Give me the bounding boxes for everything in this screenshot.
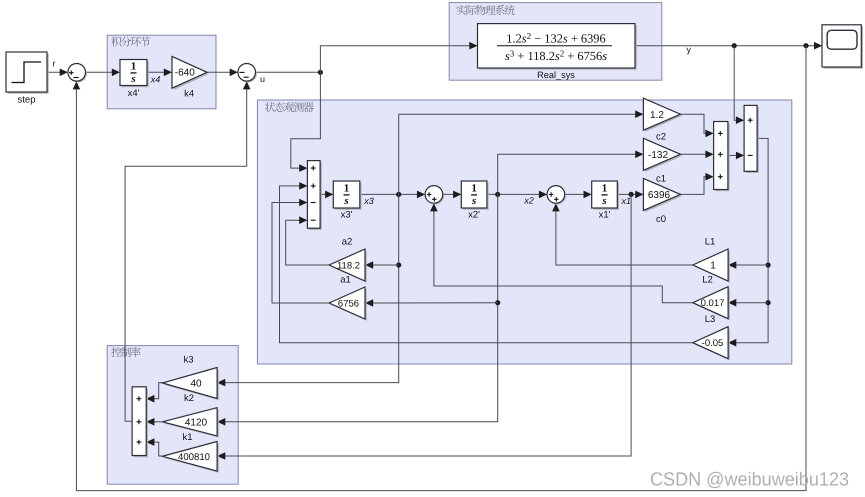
svg-text:u: u xyxy=(260,74,265,84)
wire x3 junction to a2 input xyxy=(367,264,399,266)
svg-text:6756: 6756 xyxy=(338,299,359,310)
svg-text:s: s xyxy=(130,73,135,85)
gain a1 (6756) xyxy=(331,289,367,321)
junction x2 node xyxy=(495,192,500,197)
gain a2 (118.2) xyxy=(331,251,367,283)
gain L2 (0.017) xyxy=(695,288,730,320)
step source step xyxy=(8,54,49,94)
gain c1 (-132) xyxy=(645,140,682,172)
sum S3 xyxy=(426,187,444,205)
sum S2 xyxy=(239,65,257,83)
observer sum block (+,+,-,-) xyxy=(309,162,322,230)
wire error to L1 input xyxy=(730,264,769,266)
wire x2 down to gain k2 and a1 xyxy=(219,194,498,421)
svg-text:Real_sys: Real_sys xyxy=(537,70,575,80)
wire c2 output to sum5 input 1 xyxy=(680,114,712,133)
wire observer sum to integrator x3' xyxy=(320,193,332,195)
junction x1 node xyxy=(629,192,634,197)
wire c1 output to sum5 input 2 xyxy=(680,153,712,155)
svg-text:CSDN @weibuweibu123: CSDN @weibuweibu123 xyxy=(650,470,849,491)
svg-text:L2: L2 xyxy=(702,275,713,286)
wire y feedback down-around to sum1 minus input xyxy=(76,46,806,491)
svg-text:y: y xyxy=(687,44,692,54)
gain k2 (4120) xyxy=(164,409,219,437)
wire x2 up to gain c1(-132) xyxy=(498,154,642,194)
svg-text:x1: x1 xyxy=(621,196,632,206)
junction y node B xyxy=(803,43,808,48)
svg-text:x4': x4' xyxy=(128,88,140,99)
svg-text:k1: k1 xyxy=(182,432,192,443)
svg-text:-640: -640 xyxy=(175,68,195,79)
region title 实际物理系统 xyxy=(456,5,514,15)
svg-text:x3': x3' xyxy=(341,209,353,220)
svg-text:x2: x2 xyxy=(523,196,534,206)
svg-text:1: 1 xyxy=(131,61,137,73)
svg-text:118.2: 118.2 xyxy=(337,261,360,272)
wire u node down into observer sum input 1 xyxy=(291,72,321,168)
region box 积分环节 (integral element) xyxy=(107,35,216,109)
svg-text:400810: 400810 xyxy=(178,452,210,463)
svg-text:a1: a1 xyxy=(340,274,351,285)
wire k1 output to control sum input 3 xyxy=(148,442,163,456)
wire x2' to sum4 with x2 label xyxy=(487,193,546,195)
svg-text:x3: x3 xyxy=(363,196,374,206)
svg-text:x2': x2' xyxy=(468,209,480,220)
svg-text:s3 + 118.2s2 + 6756s: s3 + 118.2s2 + 6756s xyxy=(505,48,607,63)
svg-text:6396: 6396 xyxy=(648,190,671,201)
wire error to L2 input xyxy=(730,302,769,304)
wire x3 down to gain k3 and a2 xyxy=(219,194,399,382)
wire k4 to sum2 xyxy=(207,71,236,73)
svg-text:1.2s2 − 132s + 6396: 1.2s2 − 132s + 6396 xyxy=(506,31,605,46)
junction x3 node xyxy=(396,192,401,197)
wire k2 output to control sum input 2 xyxy=(148,421,163,423)
gain L1 (1) xyxy=(695,251,730,283)
transfer function Real_sys xyxy=(479,25,637,69)
wire x2 junction to a1 input xyxy=(367,302,498,304)
wire u node up to Real_sys input xyxy=(320,46,476,73)
wire sum1 to integrator x4' xyxy=(86,71,119,73)
wire L2 output to sum3 south xyxy=(434,205,693,303)
junction u node xyxy=(318,70,323,75)
svg-text:s: s xyxy=(343,195,348,207)
svg-text:x4: x4 xyxy=(150,74,161,84)
wire x1' to gain c0 with x1 label xyxy=(617,193,642,195)
region title 状态观测器 xyxy=(265,102,314,112)
svg-text:r: r xyxy=(53,59,56,69)
wire a1 output to observer sum input 3 xyxy=(272,203,329,304)
svg-text:c2: c2 xyxy=(656,131,666,142)
svg-text:s: s xyxy=(601,195,606,207)
svg-text:c0: c0 xyxy=(656,214,666,225)
svg-text:-132: -132 xyxy=(648,150,668,161)
svg-text:k4: k4 xyxy=(184,89,194,100)
error sum block (+,-) xyxy=(746,107,759,173)
wire L3 output to observer sum input 2 xyxy=(280,186,693,343)
svg-text:-0.05: -0.05 xyxy=(702,338,724,349)
wire x1 down to gain k1 xyxy=(219,194,631,456)
junction x2 to a1 xyxy=(495,300,500,305)
svg-text:0.017: 0.017 xyxy=(701,298,725,309)
svg-text:x1': x1' xyxy=(599,209,611,220)
wire step to sum1 with r label xyxy=(47,71,67,73)
junction y node A xyxy=(732,43,737,48)
region title 控制率 xyxy=(111,347,140,357)
svg-text:L3: L3 xyxy=(705,314,716,325)
svg-text:1: 1 xyxy=(471,183,477,195)
gain L3 (-0.05) xyxy=(695,328,730,360)
junction error to L2 xyxy=(766,300,771,305)
svg-text:40: 40 xyxy=(190,379,202,390)
wire sum5 output to error sum minus input xyxy=(728,154,743,156)
junction x3 to a2 xyxy=(396,262,401,267)
svg-text:1: 1 xyxy=(344,183,350,195)
gain k3 (40) xyxy=(164,369,219,400)
wire y down to error sum plus input xyxy=(734,46,742,121)
wire x4' to k4 with x4 label xyxy=(147,71,171,73)
wire error sum output down to L gains xyxy=(730,138,769,342)
wire Real_sys output y to scope xyxy=(635,45,821,47)
svg-text:L1: L1 xyxy=(705,236,716,247)
wire x3 up to gain c2(1.2) xyxy=(399,114,642,194)
svg-text:4120: 4120 xyxy=(185,417,208,428)
wire sum3 to integrator x2' xyxy=(443,193,460,195)
integrator x3' xyxy=(335,183,362,210)
wire sum4 to integrator x1' xyxy=(565,193,591,195)
gain c0 (6396) xyxy=(645,180,682,212)
svg-text:c1: c1 xyxy=(656,173,666,184)
svg-text:1.2: 1.2 xyxy=(650,110,664,121)
region box 状态观测器 (state observer) xyxy=(257,100,791,364)
region title 积分环节 xyxy=(111,36,150,46)
region box 实际物理系统 (real physical system) xyxy=(449,3,662,81)
control sum block (+,+,+) xyxy=(134,389,148,458)
integrator x1' xyxy=(593,183,619,210)
output sum block (+,+,+) xyxy=(715,123,729,191)
wire L1 output to sum4 south xyxy=(556,205,693,265)
wire x3' to sum3 with x3 label xyxy=(360,193,424,195)
region box 控制率 (control law) xyxy=(107,346,238,485)
svg-text:s: s xyxy=(471,195,476,207)
integrator x4' xyxy=(122,61,149,87)
svg-text:k2: k2 xyxy=(184,393,194,404)
wire control sum output up to sum2 south xyxy=(125,83,247,422)
svg-text:k3: k3 xyxy=(183,355,193,366)
gain k4 (-640) xyxy=(174,58,209,90)
wire a2 output to observer sum input 4 xyxy=(286,220,329,265)
junction error to L1 xyxy=(766,262,771,267)
wire c0 output to sum5 input 3 xyxy=(680,177,712,195)
scope block xyxy=(824,27,863,69)
svg-text:1: 1 xyxy=(602,183,608,195)
wire k3 output to control sum input 1 xyxy=(148,383,163,399)
svg-text:1: 1 xyxy=(710,261,716,272)
gain c2 (1.2) xyxy=(645,100,682,132)
svg-text:a2: a2 xyxy=(342,236,353,247)
wire sum2 to u node xyxy=(256,71,321,73)
gain k1 (400810) xyxy=(164,443,219,473)
sum S1 xyxy=(69,65,87,83)
svg-text:step: step xyxy=(18,94,36,105)
integrator x2' xyxy=(463,183,489,210)
sum S4 xyxy=(548,187,566,205)
